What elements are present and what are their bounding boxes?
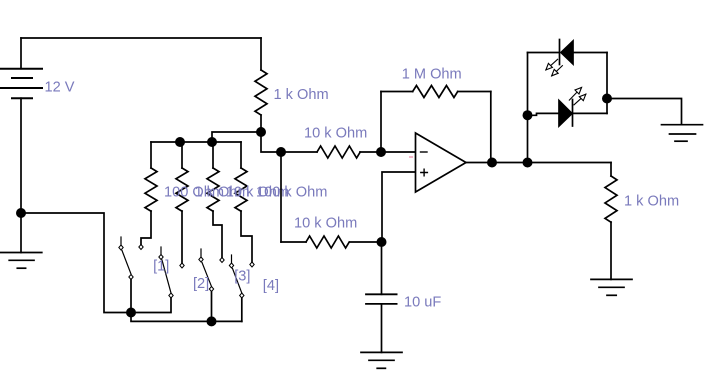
switch SW1 fixed contact (R1 lead diamond) bbox=[139, 245, 143, 250]
wire resistor bus bbox=[151, 141, 241, 143]
wire battery-neg to switch rail bbox=[21, 213, 131, 313]
svg-text:[3]: [3] bbox=[234, 269, 250, 285]
switch SW4 bbox=[229, 255, 244, 321]
svg-text:1 k Ohm: 1 k Ohm bbox=[624, 194, 679, 210]
wire node B down to R7 bbox=[280, 152, 282, 242]
battery V1 bbox=[0, 38, 42, 213]
wire node A to resistor bus bbox=[212, 132, 261, 142]
resistor R9 1 k Ohm right bbox=[605, 176, 617, 279]
resistor R5 1 k Ohm vertical bbox=[255, 38, 267, 132]
wire rail lower bbox=[131, 313, 242, 322]
switch SW2 fixed contact (R2 lead diamond) bbox=[180, 263, 184, 268]
node E output feedback bbox=[487, 158, 497, 168]
node battery-neg junction bbox=[16, 208, 26, 218]
node A R5 bottom bbox=[256, 127, 266, 137]
LED D1 top bbox=[528, 40, 608, 65]
node G LED bottom row bbox=[523, 110, 533, 120]
wire output to R9 bbox=[610, 163, 612, 177]
wire plus input bbox=[382, 172, 416, 242]
svg-text:12 V: 12 V bbox=[45, 80, 75, 96]
op-amp U1 bbox=[416, 133, 467, 192]
wire top from battery to R5 bbox=[21, 37, 261, 39]
node H bbox=[602, 94, 612, 104]
node switch rail right bbox=[207, 316, 217, 326]
svg-text:[4]: [4] bbox=[263, 278, 279, 294]
svg-text:10 k Ohm: 10 k Ohm bbox=[294, 216, 357, 232]
LED D2 arrows bbox=[569, 88, 586, 105]
resistor R7 10 k Ohm bottom bbox=[281, 236, 382, 248]
switch SW4 fixed contact (R4 lead diamond) bbox=[250, 262, 254, 267]
svg-text:10 k Ohm: 10 k Ohm bbox=[304, 126, 367, 142]
resistor R1 100 Ohm bbox=[141, 142, 157, 245]
wire minus input bbox=[381, 151, 416, 153]
wire node D down to capacitor bbox=[381, 242, 383, 294]
switch SW1 bbox=[119, 237, 133, 313]
LED D1 arrows bbox=[546, 59, 563, 76]
svg-text:[1]: [1] bbox=[153, 259, 169, 275]
wire LED right rail bbox=[606, 53, 608, 114]
node C inverting input bbox=[376, 147, 386, 157]
switch SW3 bbox=[199, 249, 214, 321]
resistor R2 1 k Ohm bbox=[176, 142, 188, 263]
wire LED left rail bbox=[527, 53, 529, 163]
svg-text:100 k Ohm: 100 k Ohm bbox=[256, 184, 327, 200]
ground left bbox=[1, 253, 42, 269]
wire node A down to node B bbox=[261, 132, 281, 152]
ground capacitor bbox=[361, 352, 402, 368]
svg-text:1 M Ohm: 1 M Ohm bbox=[402, 67, 462, 83]
node bus R3 bbox=[207, 137, 217, 147]
node bus R2 bbox=[175, 137, 185, 147]
ground right-top bbox=[662, 125, 703, 142]
ground right-bottom bbox=[591, 279, 632, 295]
LED D2 bottom bbox=[528, 100, 608, 127]
node F output LED rail bbox=[523, 158, 533, 168]
resistor R3 10 k Ohm bbox=[207, 142, 222, 258]
wire feedback down to output bbox=[490, 92, 492, 163]
svg-text:10 uF: 10 uF bbox=[404, 295, 441, 311]
resistor R4 100 k Ohm bbox=[235, 142, 252, 262]
node B bbox=[276, 147, 286, 157]
probe marker minus bbox=[410, 156, 413, 158]
wire node H to ground right-top bbox=[607, 99, 682, 125]
svg-text:1 k Ohm: 1 k Ohm bbox=[274, 87, 329, 103]
node switch rail left bbox=[126, 308, 136, 318]
switch SW2 bbox=[131, 247, 173, 313]
switch SW3 fixed contact (R3 lead diamond) bbox=[220, 258, 224, 263]
resistor R6 10 k Ohm top bbox=[281, 146, 381, 158]
capacitor C1 10 uF bbox=[366, 294, 397, 352]
node D noninverting net bbox=[377, 237, 387, 247]
svg-text:[2]: [2] bbox=[193, 276, 209, 292]
resistor R8 1 M Ohm feedback bbox=[381, 86, 491, 98]
wire battery to ground bbox=[20, 213, 22, 253]
wire node C up to feedback bbox=[380, 92, 382, 153]
wire output row bbox=[466, 162, 611, 164]
